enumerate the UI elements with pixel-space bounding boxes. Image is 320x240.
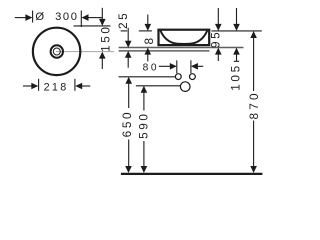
rim extension line right: [211, 30, 261, 32]
supply circle left: [175, 74, 181, 80]
dimension 95 down arrow with long tail: [217, 8, 219, 25]
basin body (side view): [159, 30, 210, 45]
svg-text:150: 150: [98, 24, 112, 51]
dimension 150 down arrow with tail: [101, 8, 103, 20]
drain level line: [136, 85, 180, 87]
svg-text:105: 105: [228, 63, 242, 90]
svg-text:8: 8: [142, 35, 156, 44]
basin outer circle (top view): [33, 28, 80, 75]
rim extension line left segment a: [121, 30, 128, 32]
dimension 105 down arrow with long tail: [236, 8, 238, 25]
dimension 870 up arrow at rim line: [250, 31, 257, 38]
supply level line: [119, 76, 175, 78]
dimension D300 extension line right: [80, 11, 82, 28]
dimension 150 up arrow with tail: [99, 52, 106, 59]
drain inner circle: [53, 48, 60, 55]
svg-text:590: 590: [137, 111, 151, 138]
svg-text:95: 95: [209, 30, 223, 48]
dimension 80 axis tick left: [176, 60, 178, 73]
svg-text:650: 650: [120, 110, 134, 137]
dimension 870 lower line and down arrow at floor: [253, 121, 255, 167]
dimension 8 down arrow with tail: [147, 15, 149, 26]
rim extension line left segment b: [139, 30, 152, 32]
dimension 218 left arrow: [23, 85, 32, 87]
dimension D300 extension line left: [32, 11, 34, 23]
center line (gray): [56, 51, 114, 53]
drain circle: [180, 82, 190, 92]
dimension 218 extension tick right: [74, 79, 76, 91]
supply circle right: [190, 74, 196, 80]
dimension 218 right arrow: [75, 83, 82, 90]
dimension 8 up arrow with tail: [145, 48, 152, 55]
dimension D300 left arrow: [15, 17, 27, 19]
dimension 650 lower line and down arrow at floor: [128, 140, 130, 167]
svg-text:Ø 300: Ø 300: [35, 11, 78, 23]
drain outer ring: [51, 45, 63, 57]
dimension 650 up arrow at supply line: [125, 77, 132, 84]
counter top line (gray): [119, 47, 244, 49]
dimension 80 right-pointing arrow: [159, 65, 171, 67]
counter bottom line (gray): [119, 50, 210, 52]
svg-text:25: 25: [116, 11, 130, 29]
dimension 590 up arrow at drain line: [141, 86, 148, 93]
dimension 105 reference dash: [234, 60, 239, 62]
svg-text:80: 80: [143, 63, 160, 74]
dimension 590 lower line and down arrow at floor: [143, 141, 145, 166]
dimension 80 left-pointing arrow: [191, 63, 198, 70]
dimension 95 up arrow with tail: [215, 48, 222, 55]
floor line: [121, 173, 263, 175]
dimension 105 up arrow with tail: [233, 48, 240, 55]
svg-text:218: 218: [44, 82, 69, 94]
dimension 25 up arrow at counter bottom with tail: [125, 51, 132, 58]
dimension 218 extension tick left: [38, 79, 40, 91]
dimension D300 right arrow: [82, 14, 89, 21]
dimension 80 axis tick right: [190, 60, 192, 73]
dimension 150 top tangent extension line: [74, 25, 111, 27]
dimension 25 line and down arrow at counter top: [127, 28, 129, 42]
basin inner bowl curve: [160, 31, 207, 44]
svg-text:870: 870: [247, 90, 261, 119]
